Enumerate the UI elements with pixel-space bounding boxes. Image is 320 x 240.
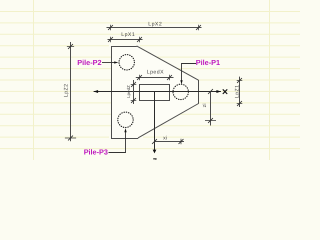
svg-text:Pile-P2: Pile-P2 xyxy=(77,58,101,67)
svg-text:zi: zi xyxy=(202,103,208,107)
svg-text:LpX1: LpX1 xyxy=(121,32,135,38)
svg-text:Pile-P1: Pile-P1 xyxy=(196,58,220,67)
svg-text:xi: xi xyxy=(163,135,167,141)
svg-text:LpZ2: LpZ2 xyxy=(64,83,70,97)
svg-text:LpedX: LpedX xyxy=(147,70,164,76)
svg-text:LpedZ: LpedZ xyxy=(126,85,131,98)
svg-text:LpZ1: LpZ1 xyxy=(235,84,241,98)
svg-text:LpX2: LpX2 xyxy=(148,22,162,28)
svg-text:Pile-P3: Pile-P3 xyxy=(84,147,108,156)
